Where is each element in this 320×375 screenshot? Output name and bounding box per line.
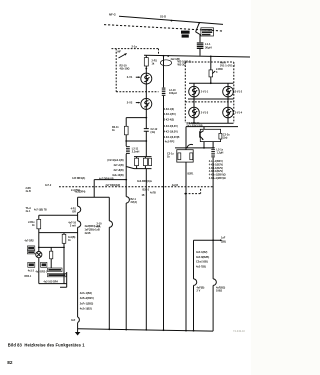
resistor R2-11 — [124, 126, 128, 135]
svg-text:C2x(-10B): C2x(-10B) — [196, 261, 208, 264]
svg-text:2-V1-2: 2-V1-2 — [235, 91, 243, 94]
dashed mid line between tube rows — [185, 101, 234, 103]
electrolytic cap group node rails — [134, 157, 152, 169]
svg-text:4x1B: 4x1B — [85, 232, 91, 235]
wire dashed control line — [104, 25, 223, 31]
svg-text:100Ω: 100Ω — [216, 289, 222, 292]
svg-text:NF: NF — [118, 50, 122, 54]
connector bump left — [194, 279, 197, 286]
svg-text:4x?-2: 4x?-2 — [45, 184, 52, 187]
NF input arrow — [119, 54, 127, 59]
small box A — [41, 262, 47, 267]
dashed enclosure tubes right — [233, 62, 235, 123]
resistor R2-1 — [145, 55, 147, 57]
wire horizontal y117.5 — [126, 117, 146, 119]
svg-text:4x2-B: 4x2-B — [172, 184, 179, 187]
capacitor C2-12 — [145, 118, 147, 129]
wire L2-10 down to bus — [163, 96, 165, 330]
svg-text:DR: DR — [72, 210, 76, 213]
svg-text:1B: 1B — [142, 195, 145, 197]
svg-text:2-V1-3: 2-V1-3 — [201, 112, 209, 115]
left label column — [107, 159, 123, 177]
svg-text:(C2=Ω)x2-1(B): (C2=Ω)x2-1(B) — [107, 159, 123, 162]
svg-text:(4n): (4n) — [151, 131, 156, 134]
svg-text:Bild 83 Heizkreise des Funkge: Bild 83 Heizkreise des Funkgerätes 1 — [8, 342, 85, 347]
lamp label boxes — [27, 246, 34, 250]
dashed box 2-1a left — [115, 49, 117, 92]
svg-text:3x7+8(B): 3x7+8(B) — [113, 169, 123, 172]
inside box labels — [85, 225, 101, 235]
svg-text:4x7-DR2: 4x7-DR2 — [25, 239, 35, 242]
junction dot — [145, 68, 147, 70]
svg-text:DR4-1: DR4-1 — [25, 275, 32, 278]
lamp — [36, 252, 42, 258]
svg-text:4x-1: 4x-1 — [26, 210, 31, 213]
svg-text:2xF+1(2B2): 2xF+1(2B2) — [80, 302, 94, 305]
dashed enclosure tubes left — [184, 62, 186, 123]
svg-text:B2R1: B2R1 — [188, 174, 195, 176]
lamp circuit top rail — [39, 214, 78, 216]
switch S1 blade — [196, 23, 200, 32]
tube heater 2-V1 — [141, 73, 152, 84]
connector bump left edge 1 — [78, 206, 81, 212]
svg-text:W2-3Ω: W2-3Ω — [178, 64, 186, 67]
svg-text:2,2mH: 2,2mH — [132, 151, 140, 154]
svg-text:2-K2-4(3): 2-K2-4(3) — [164, 119, 174, 122]
ground arrow — [75, 332, 81, 336]
svg-text:2 mA: 2 mA — [70, 225, 76, 228]
cap element 2 — [143, 158, 147, 165]
wire vertical x126 upper — [125, 118, 127, 127]
resistor under rail — [50, 247, 52, 251]
label box MB (filled) — [181, 31, 190, 34]
tube heater 2-V1-4 — [223, 107, 234, 118]
svg-text:2-V1-1: 2-V1-1 — [201, 91, 209, 94]
wire down — [210, 56, 212, 70]
stage box 2-V2 driver — [200, 129, 220, 141]
svg-text:4x2-DR4(A)x: 4x2-DR4(A)x — [137, 180, 152, 183]
wire tube row top rail — [189, 82, 234, 84]
relay box S1-E — [201, 28, 214, 36]
wire lamp down — [38, 258, 40, 284]
svg-text:4x7B: 4x7B — [150, 192, 156, 195]
dashed box 2-1a top — [112, 48, 159, 50]
svg-text:4xF-8(B2B): 4xF-8(B2B) — [196, 256, 209, 259]
svg-text:4xF: 4xF — [71, 319, 76, 322]
hook arc — [187, 144, 193, 147]
resistor 2-R30 — [209, 70, 213, 77]
svg-text:1,2μH: 1,2μH — [217, 152, 224, 155]
wire tube V2 down — [145, 109, 147, 117]
wire long vertical from box2 — [185, 127, 187, 150]
bottom rail lamp circuit — [39, 283, 67, 285]
net label list middle — [164, 108, 180, 139]
wire long vertical L2-1x to bus — [212, 157, 214, 279]
wire coil down and diagonal to cap group — [126, 154, 134, 169]
dashed control line long — [59, 186, 213, 188]
wire lower rail — [186, 126, 238, 128]
wire node rail y141 — [126, 140, 146, 142]
inductor L2-1x — [211, 147, 215, 157]
bottom bus — [78, 329, 214, 331]
svg-text:2V(A): 2V(A) — [131, 201, 138, 204]
tube heater 2-V1-2 — [223, 86, 234, 97]
wire corner down — [93, 180, 95, 198]
big box right edge — [108, 197, 110, 329]
tube heater 2-V2 — [141, 98, 152, 109]
svg-text:4x2+10(B): 4x2+10(B) — [112, 174, 124, 177]
wire top line A — [119, 16, 223, 24]
bump labels — [68, 208, 76, 323]
svg-text:4x2+1(B2): 4x2+1(B2) — [80, 308, 92, 311]
junction dots on bus — [108, 328, 110, 330]
lamp feed rail — [39, 246, 64, 248]
svg-text:2-K2-1(3): 2-K2-1(3) — [164, 108, 174, 111]
wire resistor to tube row — [210, 77, 212, 83]
wire down to L2-10 — [163, 56, 165, 88]
wire feedback rail — [175, 147, 213, 149]
wire x146 to bus — [145, 169, 147, 330]
svg-text:2 V: 2 V — [197, 289, 201, 292]
svg-text:1xF: 1xF — [221, 237, 226, 240]
wire box legs — [204, 142, 213, 148]
net label list right — [209, 160, 226, 180]
svg-text:4x2(DR4): 4x2(DR4) — [75, 191, 86, 194]
wire box top tie — [203, 127, 205, 130]
mid rail — [39, 232, 78, 234]
svg-text:74-343-10: 74-343-10 — [233, 329, 245, 333]
dashed enclosure tubes top — [185, 61, 234, 63]
small box B — [48, 268, 63, 272]
junction dot on line B at R2-30 — [210, 56, 212, 58]
svg-text:82: 82 — [7, 360, 13, 365]
net rows lower left — [80, 292, 94, 311]
label box TB (filled) — [182, 35, 189, 38]
svg-text:4x7-1(B) 7B: 4x7-1(B) 7B — [34, 208, 47, 211]
svg-text:4x2-7(B): 4x2-7(B) — [196, 265, 206, 268]
tube heater 2-V1-1 — [189, 86, 200, 97]
wire tube column links — [194, 97, 228, 107]
wire main line B — [144, 55, 250, 57]
big box top edge — [78, 196, 110, 198]
svg-text:(1n): (1n) — [223, 137, 228, 140]
cable oval — [160, 60, 171, 66]
dashed jog branch — [185, 193, 200, 195]
svg-text:4xF-1(B2): 4xF-1(B2) — [196, 251, 208, 254]
resistor in box right — [190, 153, 193, 160]
connector bump right edge — [109, 221, 112, 227]
cap element 1 — [135, 158, 139, 165]
feedback box — [177, 150, 193, 162]
svg-text:4xF+1(B2): 4xF+1(B2) — [80, 292, 92, 295]
resistor in box left — [178, 153, 181, 160]
wire between tubes — [145, 84, 147, 98]
resistor branch x64 — [63, 233, 65, 235]
svg-text:2-V2: 2-V2 — [127, 100, 133, 104]
inductor L2-10 — [162, 88, 166, 96]
net rows between verticals — [196, 251, 209, 268]
transistor symbol inside — [199, 131, 201, 137]
svg-text:2-K1+1(2BV)Ω: 2-K1+1(2BV)Ω — [209, 177, 226, 180]
svg-text:4x7 DR4(A)B: 4x7 DR4(A)B — [99, 177, 114, 180]
svg-text:4-K2-1(5V): 4-K2-1(5V) — [164, 113, 176, 116]
wire tube row bottom rail — [194, 118, 228, 124]
svg-text:NF-G: NF-G — [109, 13, 116, 17]
wire coil to line B — [199, 49, 201, 56]
svg-text:S1-D: S1-D — [160, 15, 166, 19]
svg-text:B2x-1: B2x-1 — [143, 188, 150, 191]
junction dot line B — [163, 55, 165, 57]
svg-text:4x7+1(B): 4x7+1(B) — [113, 164, 123, 167]
wire mid rail between tube rows — [188, 98, 234, 100]
big box left edge — [77, 197, 79, 332]
wire switch to coil — [196, 32, 200, 42]
svg-text:4-K4-2(6,3V): 4-K4-2(6,3V) — [164, 125, 178, 128]
small box C — [48, 273, 67, 276]
left margin box — [28, 262, 35, 267]
svg-text:4xB+2(B2V): 4xB+2(B2V) — [80, 297, 94, 300]
junction dot on line A — [171, 20, 173, 22]
wire x126 down to bump — [125, 167, 127, 197]
resistor on left branch — [38, 215, 40, 219]
svg-text:4-R DR4(A): 4-R DR4(A) — [72, 177, 85, 180]
svg-text:4x2-DR2-1: 4x2-DR2-1 — [36, 270, 48, 273]
svg-text:2-1a: 2-1a — [132, 44, 138, 48]
svg-text:4Ω+10Ω: 4Ω+10Ω — [120, 67, 130, 71]
wire R2-1 to tube V1 — [145, 66, 147, 73]
svg-text:4x-B: 4x-B — [26, 190, 31, 193]
connector bump left edge 2 — [78, 221, 81, 227]
connector bump right — [213, 279, 216, 286]
svg-text:4x1-2: 4x1-2 — [28, 269, 35, 272]
svg-text:100μH: 100μH — [169, 92, 177, 95]
resistor on box right edge — [219, 133, 222, 139]
svg-text:4x2-FP2: 4x2-FP2 — [165, 140, 175, 143]
wire vertical x126 mid — [125, 135, 127, 146]
svg-text:(2B): (2B) — [221, 241, 226, 244]
tube heater 2-V1-3 — [189, 107, 200, 118]
svg-text:2V1-1÷2V1-4: 2V1-1÷2V1-4 — [220, 64, 235, 67]
svg-text:4-K2-1(6,3V): 4-K2-1(6,3V) — [164, 131, 178, 134]
cap element 3 — [149, 158, 152, 165]
inductor L2-11 on x126 — [126, 146, 130, 154]
connector bump left edge 3 — [78, 317, 80, 323]
svg-text:2-V1-4: 2-V1-4 — [235, 112, 243, 115]
wire feed rail y179.5 — [94, 179, 126, 181]
svg-text:2-K4-1(6,3V)B: 2-K4-1(6,3V)B — [164, 136, 180, 139]
switch S1 contact dot — [198, 22, 200, 24]
connector bump B2-1 — [126, 197, 129, 203]
svg-text:mA: mA — [97, 225, 101, 228]
svg-text:30μH: 30μH — [205, 45, 212, 49]
inductor L1-1 — [197, 42, 204, 49]
dashed box 2-1a bottom — [116, 91, 158, 93]
wire corner branch — [194, 239, 222, 241]
svg-text:2-V1: 2-V1 — [127, 75, 133, 79]
